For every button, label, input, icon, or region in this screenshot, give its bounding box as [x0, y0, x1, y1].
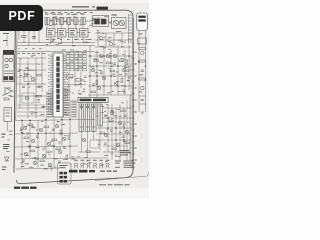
- label L149: [10, 95, 14, 98]
- label L44: [97, 29, 99, 32]
- wire right-low 7: [115, 108, 117, 152]
- transistor Q21: [42, 154, 46, 158]
- label L232: [91, 66, 95, 69]
- wire right-low 6: [107, 104, 109, 152]
- transistor Q19: [62, 137, 66, 141]
- ground G6: [50, 168, 53, 170]
- label top chain 4: [64, 11, 67, 14]
- label L133: [109, 120, 111, 123]
- junction J18: [35, 95, 37, 97]
- label L70: [80, 79, 84, 82]
- transistor Q15: [39, 128, 43, 132]
- label L19: [57, 18, 59, 21]
- transistor Q32: [141, 86, 145, 90]
- transistor outline Q34: [81, 163, 84, 168]
- transistor Q20: [24, 152, 28, 156]
- capacitor C19: [28, 146, 31, 147]
- label L257: [68, 85, 71, 88]
- label L155: [8, 139, 10, 142]
- wire right-low 5: [103, 151, 130, 153]
- label L83: [111, 90, 114, 93]
- label L90: [110, 62, 112, 65]
- IC U1 right pins: [63, 55, 66, 115]
- label L2: [51, 19, 54, 22]
- resistor R12: [119, 60, 124, 62]
- junction J20: [128, 55, 130, 57]
- wire right-mid 12: [128, 45, 130, 90]
- wire box stub down 1: [50, 37, 52, 44]
- capacitor C21: [63, 147, 66, 148]
- label L109: [51, 144, 53, 147]
- label L246: [117, 108, 120, 111]
- label L213: [102, 47, 106, 50]
- IC U1 left pins: [50, 55, 53, 115]
- transistor Q31: [141, 51, 145, 55]
- label L120: [36, 146, 40, 149]
- junction J15: [123, 139, 125, 141]
- wire right-low 9: [129, 95, 131, 160]
- wire right-upper 5: [105, 33, 107, 47]
- junction J3: [53, 146, 55, 148]
- block box U2: [47, 29, 56, 38]
- wire volume rung 1: [139, 95, 146, 97]
- wire right-upper 4: [97, 33, 99, 47]
- capacitor C13: [92, 84, 95, 85]
- label L218: [114, 43, 116, 46]
- label L67: [78, 89, 80, 92]
- label under badge: [3, 33, 9, 41]
- label L66: [82, 90, 85, 93]
- resistor R20: [28, 124, 33, 126]
- label L96: [123, 92, 125, 95]
- label L152: [9, 94, 12, 97]
- label L264: [33, 54, 36, 57]
- transistor outline Q38: [106, 163, 109, 168]
- label top chain 1: [45, 11, 47, 14]
- wire below grid 1: [68, 72, 70, 89]
- label L224: [116, 80, 120, 83]
- pin function list right A: [64, 88, 70, 118]
- label L31: [70, 49, 74, 52]
- label IF header box: [78, 97, 108, 102]
- resistor R34: [100, 132, 104, 134]
- label volume strip 1: [139, 33, 143, 36]
- wire mid-left 5: [17, 107, 46, 109]
- label L124: [34, 156, 36, 159]
- junction J1: [21, 120, 23, 122]
- label L134: [100, 105, 104, 108]
- wire box stub down 4: [83, 37, 85, 44]
- label L64: [26, 66, 28, 69]
- junction JX8: [115, 139, 117, 141]
- wire main top border: [43, 10, 133, 17]
- transistor Q27: [118, 121, 122, 125]
- label L225: [127, 69, 131, 72]
- transistor outline Q35: [87, 163, 90, 168]
- label L79: [121, 60, 123, 63]
- wire between boxes 2: [66, 32, 69, 34]
- label L14: [92, 18, 94, 21]
- wire top stub down 4: [68, 25, 70, 29]
- label L261: [26, 73, 30, 76]
- junction JX10: [45, 132, 47, 134]
- label L255: [72, 92, 74, 95]
- transistor Q13: [109, 42, 112, 45]
- label L127: [120, 131, 122, 134]
- pin function list left: [46, 92, 52, 118]
- label +B: [2, 134, 6, 138]
- inductor L5: [74, 18, 78, 25]
- label L45: [98, 36, 100, 39]
- label L78: [125, 70, 129, 73]
- junction J10: [110, 75, 112, 77]
- label L119: [21, 161, 24, 164]
- label top chain 8: [90, 11, 93, 14]
- wire bus y42: [17, 42, 95, 44]
- label L91: [119, 73, 122, 76]
- label RF antenna title: [72, 6, 95, 7]
- capacitor C30: [84, 76, 87, 77]
- label L219: [113, 75, 116, 78]
- label L262: [20, 58, 22, 61]
- label bus row 2: [22, 52, 25, 55]
- pin function list right B: [71, 100, 77, 118]
- label U3 inner: [59, 30, 64, 35]
- label L86: [95, 51, 99, 54]
- capacitor C12: [122, 90, 125, 91]
- wire amp output: [12, 90, 15, 92]
- wire right-mid 9: [110, 50, 112, 95]
- label L100: [54, 157, 58, 160]
- label L122: [30, 124, 32, 127]
- label L252: [98, 143, 100, 146]
- label L251: [121, 101, 124, 104]
- junction JX1: [89, 55, 91, 57]
- label L111: [23, 132, 25, 135]
- capacitor C18: [52, 129, 55, 130]
- label L112: [60, 132, 62, 135]
- resistor R11: [106, 62, 111, 64]
- label L140: [114, 114, 118, 117]
- parts list black block row 2: [59, 176, 67, 179]
- wire top chain segment 6: [85, 20, 88, 22]
- resistor R37: [139, 60, 146, 62]
- wire right-mid 6: [89, 45, 91, 100]
- label bus row b1: [18, 47, 20, 50]
- label L143: [83, 162, 85, 165]
- resistor R36: [125, 142, 129, 144]
- ground G5: [34, 158, 37, 160]
- wire right-low extra 6: [119, 104, 121, 160]
- label bus row b4: [39, 47, 42, 50]
- capacitor C24: [141, 70, 144, 71]
- label L84: [125, 73, 128, 76]
- wire right-mid 3: [88, 75, 132, 77]
- label L211: [120, 40, 123, 43]
- wire between boxes 4: [88, 32, 91, 34]
- ground G4: [58, 142, 61, 144]
- wire bottom-mid 2: [15, 133, 78, 134]
- label L10: [111, 14, 114, 17]
- label L243: [70, 163, 72, 166]
- inductor L3: [59, 18, 63, 25]
- label L38: [118, 39, 121, 42]
- transistor Q1: [24, 73, 28, 77]
- label L73: [93, 58, 97, 61]
- block box U5: [80, 29, 89, 38]
- wire mid-left 8: [35, 58, 37, 118]
- label L55: [24, 75, 26, 78]
- label L237: [50, 140, 53, 143]
- label L235: [57, 120, 59, 123]
- label L50: [20, 74, 22, 77]
- label L221: [126, 66, 129, 69]
- wire bus y51: [17, 50, 95, 52]
- wire mid-left 4: [17, 95, 46, 97]
- IF transformer T3: [85, 104, 90, 132]
- junction J5: [45, 119, 47, 121]
- label L148: [105, 160, 107, 163]
- label L209: [56, 23, 58, 26]
- resistor R25: [68, 135, 70, 140]
- junction JV1: [138, 43, 139, 44]
- label L215: [108, 48, 110, 51]
- label second row 3: [60, 38, 62, 41]
- label L128: [111, 152, 113, 155]
- wire right-mid 4: [88, 85, 132, 87]
- transistor outline Q36: [93, 163, 96, 168]
- resistor R10: [94, 60, 99, 62]
- wire mid-left y64: [17, 63, 44, 65]
- wire volume rail right: [145, 31, 147, 113]
- label L204: [68, 16, 72, 19]
- label L3: [50, 19, 52, 22]
- label L248: [101, 111, 103, 114]
- wire bottom-mid 9: [45, 118, 47, 158]
- parts list box: [58, 163, 71, 184]
- wire top stub down 6: [82, 25, 84, 29]
- label L9: [57, 13, 59, 16]
- tuner contact block B: [9, 76, 13, 80]
- label L107: [57, 120, 60, 123]
- label L105: [26, 140, 29, 143]
- transistor outline Q33: [74, 163, 77, 168]
- resistor R15: [121, 78, 123, 83]
- resistor R14: [110, 70, 115, 72]
- wire transformer down 1: [80, 132, 82, 153]
- label L34: [52, 39, 54, 42]
- transistor Q8: [102, 76, 106, 80]
- resistor R27: [56, 148, 61, 150]
- resistor R28: [40, 160, 45, 162]
- label T1: [112, 14, 117, 15]
- transistor Q26: [110, 111, 114, 115]
- transistor Q40: [82, 138, 86, 142]
- junction JX12: [61, 132, 63, 134]
- wire top stub down 1: [46, 25, 48, 29]
- label L238: [64, 134, 67, 137]
- transistor Q6: [113, 54, 117, 58]
- wire box stub down 3: [72, 37, 74, 44]
- label L205: [62, 17, 65, 20]
- PDF badge overlay: [0, 5, 43, 31]
- label L210: [90, 24, 93, 27]
- label L1: [71, 13, 74, 16]
- label L131: [118, 155, 121, 158]
- capacitor C6: [38, 86, 41, 87]
- voltage table grid: [67, 52, 87, 71]
- wire volume rung 2: [139, 103, 146, 105]
- wire transformer down 3: [93, 132, 95, 141]
- right border stub labels: [135, 52, 137, 161]
- label L132: [123, 140, 126, 143]
- label L226: [127, 76, 130, 79]
- op-amp A1 triangle: [5, 88, 12, 95]
- junction J2: [37, 133, 39, 135]
- label L138: [111, 110, 114, 113]
- capacitor C23: [58, 161, 61, 162]
- label L220: [95, 58, 97, 61]
- model number bold text: [69, 170, 95, 173]
- label L26: [58, 42, 61, 45]
- resistor R40: [67, 75, 74, 79]
- label L23: [84, 49, 87, 52]
- label L94: [116, 71, 119, 74]
- label L228: [124, 58, 126, 61]
- label L113: [40, 164, 44, 167]
- wire right-low extra 5: [111, 104, 113, 160]
- label L6: [63, 20, 67, 23]
- label L58: [42, 105, 46, 108]
- junction J7: [69, 119, 71, 121]
- label L207: [70, 18, 73, 21]
- label L5: [79, 23, 81, 26]
- label L15: [109, 22, 111, 25]
- junction JX2: [96, 75, 98, 77]
- label L263: [37, 101, 40, 104]
- legend text block inner: [120, 150, 131, 155]
- wire top row to speaker: [88, 20, 92, 22]
- label L43: [102, 32, 105, 35]
- label L7: [92, 17, 96, 20]
- wire bottom-mid 8: [37, 120, 39, 168]
- wire top stub down 2: [53, 25, 55, 29]
- label L202: [91, 22, 95, 25]
- label SPEAKER header: [97, 7, 109, 10]
- junction J19: [89, 75, 91, 77]
- wire bottom-mid 5: [16, 168, 60, 169]
- label L147: [101, 164, 105, 167]
- label L63: [40, 113, 44, 116]
- transistor Q16: [55, 124, 59, 128]
- wire right-low 3: [96, 127, 132, 129]
- label second row 5: [74, 38, 77, 41]
- label L4 value: [67, 14, 71, 15]
- label L1 value: [45, 14, 49, 15]
- label L28: [50, 38, 54, 41]
- label L42: [116, 30, 118, 33]
- junction J17: [27, 83, 29, 85]
- wire below grid 3: [80, 72, 82, 89]
- regulator box VR1: [4, 108, 12, 122]
- wire mid-left 2: [17, 69, 46, 71]
- capacitor C16: [20, 128, 23, 129]
- junction J13: [107, 117, 109, 119]
- potentiometer VR2: [138, 38, 147, 44]
- junction J21: [138, 61, 140, 63]
- transistor Q29: [116, 143, 120, 147]
- label bus row b3: [32, 47, 35, 50]
- resistor R41: [76, 79, 81, 82]
- label L33: [62, 49, 66, 52]
- label L41: [108, 37, 110, 40]
- transistor Q12: [99, 36, 102, 39]
- label second row 2: [53, 38, 56, 41]
- label top chain 2: [51, 11, 54, 14]
- label L3 value: [59, 14, 63, 15]
- wire bottom mid bus 3: [78, 157, 108, 159]
- label L101: [26, 154, 29, 157]
- label L151: [9, 133, 13, 136]
- label L256: [75, 84, 79, 87]
- label L247: [106, 128, 108, 131]
- junction JX5: [117, 85, 119, 87]
- wire grid to IC: [63, 59, 67, 61]
- label L71: [84, 80, 87, 83]
- label L89: [110, 85, 112, 88]
- junction J11: [117, 65, 119, 67]
- capacitor C22: [22, 160, 25, 161]
- resistor R1: [22, 36, 27, 38]
- label L56: [36, 86, 40, 89]
- label L85: [109, 52, 112, 55]
- junction JX6: [124, 65, 126, 67]
- label L234: [31, 166, 34, 169]
- inductor L4: [67, 18, 71, 25]
- label L115: [48, 153, 50, 156]
- label L230: [122, 53, 124, 56]
- label L267: [28, 69, 31, 72]
- label L37: [107, 40, 111, 43]
- label L46: [124, 41, 126, 44]
- wire mid-left stub 3: [17, 115, 45, 117]
- label L217: [128, 38, 131, 41]
- label bus row 6: [42, 52, 46, 55]
- label L233: [71, 156, 74, 159]
- label tuner header: [3, 50, 14, 55]
- label L48: [99, 45, 103, 48]
- label L137: [105, 114, 107, 117]
- label L29: [51, 40, 54, 43]
- label L108: [41, 120, 44, 123]
- wire top chain segment 5: [78, 20, 81, 22]
- label L206: [51, 24, 54, 27]
- label L47: [103, 36, 106, 39]
- IC U1 pin numbers: [48, 55, 68, 115]
- label L260: [67, 90, 71, 93]
- wire bottom-mid 1: [15, 120, 95, 121]
- wire drop under badge 4: [33, 31, 35, 40]
- legend text columns: [115, 161, 136, 168]
- label bus row 4: [32, 52, 36, 55]
- wire right-mid 1: [88, 55, 132, 57]
- label L146: [84, 163, 87, 166]
- transistor Q7: [91, 68, 95, 72]
- resistor R38: [139, 78, 146, 80]
- capacitor C20: [47, 151, 50, 152]
- label top chain 3: [58, 11, 61, 14]
- capacitor C31: [104, 115, 107, 116]
